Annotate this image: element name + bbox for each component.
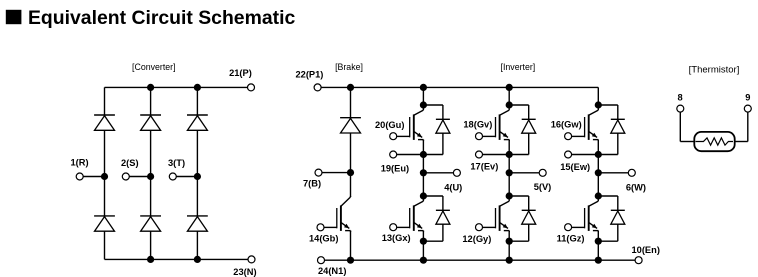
- svg-text:13(Gx): 13(Gx): [382, 233, 411, 243]
- wire 6(W) leg top: [597, 87, 599, 105]
- terminal 14(Gb): [317, 224, 324, 231]
- wire D13 branch bottom: [598, 224, 618, 241]
- pin label 6(W): [626, 182, 646, 192]
- wire D12 branch bottom: [509, 224, 529, 241]
- diode D1: [94, 115, 115, 130]
- thermistor TH1: [694, 132, 734, 151]
- pin label 9: [745, 93, 750, 103]
- terminal 17(Ev): [476, 151, 483, 158]
- diode D3: [187, 115, 208, 130]
- svg-text:20(Gu): 20(Gu): [375, 120, 404, 130]
- svg-text:23(N): 23(N): [233, 267, 256, 277]
- pin label 8: [678, 93, 683, 103]
- junction 7(B) node: [347, 169, 354, 176]
- svg-text:1(R): 1(R): [71, 158, 89, 168]
- pin label 2(S): [121, 158, 139, 168]
- svg-text:16(Gw): 16(Gw): [551, 120, 582, 130]
- wire input S: [129, 176, 150, 178]
- pin label 12(Gy): [462, 234, 491, 244]
- IGBT Q2 (upper 5(V)): [496, 105, 510, 141]
- junction Q4 collector: [420, 192, 427, 199]
- wire phase 6(W) leg: [597, 155, 599, 197]
- IGBT Q3 (upper 6(W)): [585, 105, 599, 141]
- wire gate 11(Gz): [572, 226, 585, 228]
- diode D7 (brake): [340, 118, 361, 133]
- wire phase output 5(V): [509, 172, 539, 174]
- diode D6: [187, 216, 208, 231]
- wire thermistor right lead: [734, 112, 748, 141]
- terminal 3(T): [169, 173, 176, 180]
- junction P1 rail / 5(V) leg: [506, 84, 513, 91]
- junction phase 4(U): [420, 169, 427, 176]
- svg-text:7(B): 7(B): [303, 179, 321, 189]
- wire D9 branch bottom: [509, 133, 529, 154]
- terminal 5(V): [539, 169, 546, 176]
- junction Q5 collector: [506, 192, 513, 199]
- pin label 15(Ew): [560, 162, 590, 172]
- wire emitter 19(Eu): [397, 154, 424, 156]
- pin label 13(Gx): [382, 233, 411, 243]
- svg-text:15(Ew): 15(Ew): [560, 162, 590, 172]
- wire Q5 emitter to node: [508, 231, 510, 242]
- wire 5(V) leg top: [508, 87, 510, 105]
- terminal 6(W): [628, 169, 635, 176]
- pin label 4(U): [444, 182, 462, 192]
- wire phase 5(V) leg: [508, 155, 510, 197]
- terminal 9: [744, 105, 751, 112]
- wire 6(W) leg bottom: [597, 241, 599, 260]
- title marker square: [6, 10, 22, 24]
- wire gate 16(Gw): [572, 135, 585, 137]
- terminal 2(S): [122, 173, 129, 180]
- junction T input: [194, 173, 201, 180]
- wire input T: [176, 176, 197, 178]
- junction N rail / leg 3: [194, 256, 201, 263]
- pin label 3(T): [168, 158, 185, 168]
- pin label 11(Gz): [557, 233, 585, 243]
- wire 5(V) leg bottom: [508, 241, 510, 260]
- wire D11 branch bottom: [423, 224, 443, 241]
- svg-text:4(U): 4(U): [444, 182, 462, 192]
- terminal 16(Gw): [565, 133, 572, 140]
- wire D10 branch top: [598, 105, 618, 119]
- wire D8 branch bottom: [423, 133, 443, 154]
- junction Q2 collector: [506, 101, 513, 108]
- svg-text:2(S): 2(S): [121, 158, 139, 168]
- junction Q1 collector: [420, 101, 427, 108]
- wire Q1 emitter to node: [422, 140, 424, 155]
- wire 4(U) leg bottom: [422, 241, 424, 260]
- diode D12 (FWD Q5): [522, 210, 536, 224]
- svg-text:24(N1): 24(N1): [318, 266, 346, 276]
- terminal 1(R): [76, 173, 83, 180]
- junction P rail / leg 3: [194, 84, 201, 91]
- wire brake leg upper: [350, 87, 352, 196]
- wire 7(B): [322, 172, 351, 174]
- junction P rail / leg 2: [147, 84, 154, 91]
- wire gate Gb: [324, 226, 337, 228]
- pin label 17(Ev): [470, 162, 498, 172]
- junction Q5 emitter: [506, 238, 513, 245]
- wire phase output 4(U): [423, 172, 453, 174]
- junction Q3 emitter: [595, 151, 602, 158]
- junction P1 rail / brake leg: [347, 84, 354, 91]
- junction Q6 emitter: [595, 238, 602, 245]
- pin label 5(V): [534, 182, 552, 192]
- pin label 23(N): [233, 267, 256, 277]
- svg-text:Equivalent Circuit Schematic: Equivalent Circuit Schematic: [28, 7, 295, 29]
- pin label 7(B): [303, 179, 321, 189]
- svg-text:17(Ev): 17(Ev): [470, 162, 498, 172]
- terminal 13(Gx): [390, 224, 397, 231]
- wire gate 13(Gx): [397, 226, 410, 228]
- wire gate 20(Gu): [397, 135, 410, 137]
- svg-text:3(T): 3(T): [168, 158, 185, 168]
- pin label 21(P): [229, 68, 252, 78]
- wire gate 12(Gy): [483, 226, 496, 228]
- terminal 15(Ew): [565, 151, 572, 158]
- wire thermistor left lead: [680, 112, 695, 141]
- terminal 4(U): [453, 169, 460, 176]
- terminal 12(Gy): [476, 224, 483, 231]
- pin label 24(N1): [318, 266, 346, 276]
- wire converter N rail: [105, 258, 249, 260]
- svg-text:8: 8: [678, 93, 683, 103]
- terminal 11(Gz): [565, 224, 572, 231]
- junction N rail / leg 2: [147, 256, 154, 263]
- pin label 20(Gu): [375, 120, 404, 130]
- wire D11 branch top: [423, 196, 443, 210]
- terminal 22(P1): [314, 84, 321, 91]
- terminal 7(B): [315, 169, 322, 176]
- junction Q1 emitter: [420, 151, 427, 158]
- junction N1 rail / 6(W) leg: [595, 257, 602, 264]
- svg-text:[Converter]: [Converter]: [132, 62, 176, 72]
- wire P1 rail: [321, 86, 598, 88]
- diode D8 (FWD Q1): [436, 119, 450, 133]
- section label [Converter]: [132, 62, 176, 72]
- junction P1 rail / 4(U) leg: [420, 84, 427, 91]
- section label [Thermistor]: [689, 65, 740, 76]
- wire Q4 emitter to node: [422, 231, 424, 242]
- wire emitter 15(Ew): [572, 154, 599, 156]
- section label [Brake]: [335, 62, 363, 72]
- svg-text:19(Eu): 19(Eu): [381, 163, 409, 173]
- svg-text:[Thermistor]: [Thermistor]: [689, 65, 740, 76]
- terminal 24(N1): [318, 257, 325, 264]
- junction Q6 collector: [595, 192, 602, 199]
- diode D9 (FWD Q2): [522, 119, 536, 133]
- svg-text:18(Gv): 18(Gv): [463, 120, 492, 130]
- junction phase 5(V): [506, 169, 513, 176]
- pin label 10(En): [632, 245, 660, 255]
- pin label 16(Gw): [551, 120, 582, 130]
- IGBT Q4 (lower 4(U)): [410, 196, 424, 232]
- pin label 22(P1): [296, 70, 324, 80]
- wire D10 branch bottom: [598, 133, 618, 154]
- junction R input: [101, 173, 108, 180]
- wire converter leg 1: [104, 87, 106, 259]
- IGBT Q1 (upper 4(U)): [410, 105, 424, 141]
- svg-text:14(Gb): 14(Gb): [309, 234, 338, 244]
- IGBT Q5 (lower 5(V)): [496, 196, 510, 232]
- junction N1 rail / brake leg: [347, 257, 354, 264]
- junction Q3 collector: [595, 101, 602, 108]
- junction S input: [147, 173, 154, 180]
- wire D13 branch top: [598, 196, 618, 210]
- wire gate 18(Gv): [483, 135, 496, 137]
- diode D10 (FWD Q3): [611, 119, 625, 133]
- wire 4(U) leg top: [422, 87, 424, 105]
- wire input R: [83, 176, 104, 178]
- wire N1 rail: [325, 259, 636, 261]
- wire phase output 6(W): [598, 172, 628, 174]
- wire Q2 emitter to node: [508, 140, 510, 155]
- wire Q6 emitter to node: [597, 231, 599, 242]
- svg-text:5(V): 5(V): [534, 182, 552, 192]
- terminal 20(Gu): [390, 133, 397, 140]
- pin label 1(R): [71, 158, 89, 168]
- wire converter leg 2: [150, 87, 152, 259]
- wire Q3 emitter to node: [597, 140, 599, 155]
- diode D11 (FWD Q4): [436, 210, 450, 224]
- IGBT Q7 (brake chopper): [337, 196, 351, 232]
- wire D12 branch top: [509, 196, 529, 210]
- wire phase 4(U) leg: [422, 155, 424, 197]
- svg-text:12(Gy): 12(Gy): [462, 234, 491, 244]
- wire converter leg 3: [196, 87, 198, 259]
- svg-text:9: 9: [745, 93, 750, 103]
- IGBT Q6 (lower 6(W)): [585, 196, 599, 232]
- diode D2: [140, 115, 161, 130]
- svg-text:[Inverter]: [Inverter]: [501, 62, 536, 72]
- wire brake leg lower: [350, 231, 352, 261]
- wire D8 branch top: [423, 105, 443, 119]
- junction Q4 emitter: [420, 238, 427, 245]
- terminal 19(Eu): [390, 151, 397, 158]
- svg-text:22(P1): 22(P1): [296, 70, 324, 80]
- junction N1 rail / 5(V) leg: [506, 257, 513, 264]
- pin label 14(Gb): [309, 234, 338, 244]
- junction Q2 emitter: [506, 151, 513, 158]
- terminal 21(P): [248, 84, 255, 91]
- svg-text:21(P): 21(P): [229, 68, 252, 78]
- diode D4: [94, 216, 115, 231]
- pin label 19(Eu): [381, 163, 409, 173]
- svg-text:6(W): 6(W): [626, 182, 646, 192]
- svg-text:10(En): 10(En): [632, 245, 660, 255]
- junction N1 rail / 4(U) leg: [420, 257, 427, 264]
- title text: [28, 7, 295, 29]
- terminal 8: [677, 105, 684, 112]
- terminal 18(Gv): [476, 133, 483, 140]
- svg-text:11(Gz): 11(Gz): [557, 233, 585, 243]
- wire D9 branch top: [509, 105, 529, 119]
- terminal 10(En): [635, 257, 642, 264]
- diode D5: [140, 216, 161, 231]
- pin label 18(Gv): [463, 120, 492, 130]
- diode D13 (FWD Q6): [611, 210, 625, 224]
- terminal 23(N): [248, 256, 255, 263]
- section label [Inverter]: [501, 62, 536, 72]
- wire converter P rail: [105, 86, 248, 88]
- wire emitter 17(Ev): [483, 154, 510, 156]
- svg-text:[Brake]: [Brake]: [335, 62, 363, 72]
- junction phase 6(W): [595, 169, 602, 176]
